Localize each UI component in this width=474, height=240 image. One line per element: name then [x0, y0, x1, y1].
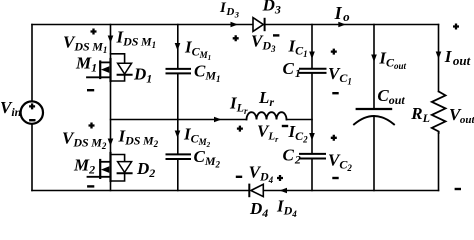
svg-text:IDSM2: IDSM2 — [118, 127, 159, 150]
svg-text:VDSM2: VDSM2 — [62, 129, 107, 152]
svg-text:C2: C2 — [283, 146, 301, 167]
svg-text:IC1: IC1 — [288, 37, 308, 60]
svg-text:M1: M1 — [75, 54, 97, 75]
svg-text:VD4: VD4 — [249, 163, 274, 186]
svg-text:VD3: VD3 — [251, 32, 276, 55]
svg-text:Cout: Cout — [377, 86, 405, 107]
svg-text:IDSM1: IDSM1 — [116, 28, 157, 51]
svg-text:VLr: VLr — [257, 122, 279, 145]
svg-text:ICout: ICout — [378, 49, 406, 72]
svg-text:VC1: VC1 — [328, 64, 352, 87]
svg-text:M2: M2 — [73, 156, 95, 177]
svg-text:Vout: Vout — [449, 105, 474, 126]
svg-text:Lr: Lr — [258, 88, 274, 109]
svg-text:D4: D4 — [249, 199, 268, 219]
svg-text:CM1: CM1 — [194, 62, 221, 85]
svg-text:C1: C1 — [283, 59, 301, 80]
svg-text:ICM1: ICM1 — [184, 38, 211, 63]
svg-text:VC2: VC2 — [328, 151, 352, 174]
svg-text:D2: D2 — [136, 159, 155, 180]
svg-text:Io: Io — [334, 3, 351, 24]
svg-text:Iout: Iout — [444, 47, 471, 68]
svg-text:ID3: ID3 — [219, 0, 240, 20]
svg-text:CM2: CM2 — [194, 147, 221, 170]
svg-text:RL: RL — [410, 104, 430, 125]
svg-text:ILr: ILr — [229, 94, 248, 117]
svg-text:D3: D3 — [262, 0, 281, 17]
svg-text:Vin: Vin — [0, 98, 22, 119]
svg-text:ID4: ID4 — [276, 197, 297, 220]
svg-text:VDSM1: VDSM1 — [63, 33, 107, 56]
svg-text:ICM2: ICM2 — [183, 125, 211, 150]
svg-text:IC2: IC2 — [288, 122, 309, 145]
svg-text:D1: D1 — [133, 65, 152, 86]
